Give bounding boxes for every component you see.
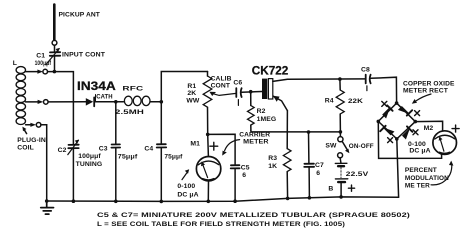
- node C3 rail: [114, 200, 118, 204]
- node C2 rail: [72, 199, 76, 203]
- node M1 rail: [207, 200, 211, 204]
- svg-text:6: 6: [316, 170, 320, 177]
- svg-text:75μμf: 75μμf: [164, 153, 183, 160]
- diode D1 IN34A: [86, 97, 94, 106]
- node junction C1/top-tap: [53, 70, 57, 74]
- capacitor C6: [236, 88, 241, 97]
- M1 bottom wire: [207, 181, 209, 201]
- svg-text:75μμf: 75μμf: [118, 153, 138, 160]
- node base/R2 junction: [249, 90, 253, 94]
- battery B 22.5V: [335, 163, 348, 197]
- inductor RFC 2.5MH: [124, 96, 150, 105]
- svg-text:C5: C5: [241, 165, 250, 172]
- capacitor C7: [304, 164, 314, 167]
- svg-text:PLUG-IN: PLUG-IN: [17, 137, 46, 144]
- svg-text:RFC: RFC: [122, 86, 143, 93]
- R3 label: [268, 155, 277, 170]
- wire middle tap: [26, 101, 39, 103]
- PLUG-IN COIL pointer arrow: [22, 127, 26, 134]
- M1 value pointer arrow: [182, 169, 189, 179]
- svg-text:C6: C6: [233, 79, 242, 86]
- svg-text:CONT: CONT: [211, 82, 231, 89]
- resistor R2 1MEG: [248, 92, 255, 131]
- battery + label: [348, 185, 354, 191]
- wire emitter line B (R2 bottom to SW junction): [251, 131, 341, 132]
- node C7 rail: [308, 196, 312, 200]
- C4 wires: [160, 148, 162, 201]
- wire middle tap to diode: [48, 101, 86, 103]
- bridge diode CR1 upper-left: [382, 105, 392, 118]
- svg-text:METER: METER: [243, 138, 268, 145]
- svg-text:DC μA: DC μA: [177, 191, 198, 198]
- C3 wires: [115, 102, 117, 144]
- node C3 tap: [114, 100, 118, 104]
- bridge diode CR4 lower-right: [402, 126, 412, 139]
- svg-text:22K: 22K: [348, 98, 363, 105]
- collector rail wire: [288, 78, 366, 80]
- svg-text:R4: R4: [325, 98, 334, 105]
- wire antenna to C1: [54, 45, 56, 51]
- CARRIER METER pointer arrow: [222, 140, 239, 156]
- node C4 rail: [160, 200, 164, 204]
- capacitor C1 (variable, INPUT CONT): [46, 48, 60, 65]
- svg-text:C7: C7: [315, 162, 324, 169]
- svg-text:COIL: COIL: [17, 145, 34, 152]
- node R4/SW junction: [339, 130, 343, 134]
- R2 label: [257, 108, 277, 123]
- svg-text:MODULATION: MODULATION: [405, 175, 449, 182]
- wire C1 to junction: [54, 57, 56, 72]
- node ground rail start: [45, 199, 49, 203]
- svg-text:B: B: [328, 186, 333, 193]
- wire bottom tap to ground riser: [41, 125, 47, 201]
- node R4 top junction: [338, 77, 342, 81]
- M1 value 0-100 DC uA: [177, 183, 198, 198]
- CR4 x mark: [413, 130, 418, 135]
- capacitor C4: [157, 144, 167, 147]
- connector jack top tap: [43, 69, 48, 74]
- M2 value 0-100 DC uA: [408, 141, 431, 155]
- capacitor C2 (variable, TUNING): [68, 140, 79, 155]
- bridge diode CR3 lower-left: [380, 126, 394, 136]
- CR3 x mark: [388, 138, 393, 143]
- CR2 x mark: [415, 111, 420, 116]
- svg-text:L = SEE COIL TABLE FOR FIELD S: L = SEE COIL TABLE FOR FIELD STRENGTH ME…: [97, 221, 345, 228]
- svg-text:M2: M2: [424, 125, 434, 132]
- svg-text:6: 6: [242, 172, 246, 179]
- resistor R4 22K: [336, 79, 344, 132]
- R1 label: [186, 83, 200, 105]
- svg-text:C2: C2: [58, 147, 67, 154]
- meter M2 percent modulation meter: [433, 131, 457, 155]
- node bridge bottom: [395, 137, 399, 141]
- C7 wires: [308, 132, 310, 163]
- CARRIER METER label: [239, 132, 270, 146]
- svg-text:ON-OFF: ON-OFF: [349, 143, 374, 150]
- svg-text:1MEG: 1MEG: [257, 116, 277, 123]
- node M1 top / line A junction: [206, 133, 210, 137]
- svg-text:22.5V: 22.5V: [346, 171, 369, 178]
- pickup antenna: [53, 5, 56, 41]
- svg-text:C5 & C7= MINIATURE 200V META: C5 & C7= MINIATURE 200V METALLIZED TUBUL…: [97, 212, 410, 219]
- switch SW: [338, 132, 350, 163]
- svg-text:IN34A: IN34A: [77, 80, 117, 93]
- node bridge left: [377, 120, 381, 124]
- node battery rail: [339, 195, 343, 199]
- svg-text:C8: C8: [361, 67, 370, 74]
- wire RFC to riser: [150, 101, 161, 103]
- svg-text:C1: C1: [36, 53, 45, 60]
- wire bottom tap: [26, 124, 32, 126]
- CR1 x mark: [382, 101, 387, 106]
- connector plug arrow middle tap: [38, 100, 44, 104]
- node R3 rail: [286, 197, 290, 201]
- PERCENT MODULATION METER label: [405, 167, 449, 190]
- svg-text:R1: R1: [187, 83, 196, 90]
- connector jack middle tap: [44, 100, 49, 105]
- ground rail wire: [47, 197, 399, 202]
- node C5 rail: [233, 199, 237, 203]
- svg-text:PICKUP ANT: PICKUP ANT: [59, 11, 101, 18]
- connector jack bottom tap: [36, 123, 41, 128]
- wire bridge bottom to rail: [397, 139, 399, 197]
- COPPER OXIDE METER RECT label: [403, 80, 455, 94]
- PERCENT MODULATION pointer arrow: [431, 161, 453, 185]
- svg-text:C3: C3: [99, 145, 108, 152]
- COPPER OXIDE pointer arrow: [412, 94, 431, 104]
- svg-text:ME TER: ME TER: [405, 183, 430, 190]
- svg-text:C4: C4: [144, 146, 153, 153]
- svg-text:DC μA: DC μA: [409, 148, 430, 155]
- ground symbol: [41, 201, 54, 214]
- svg-text:2.5MH: 2.5MH: [115, 109, 144, 116]
- CALIB CONT label: [211, 76, 232, 90]
- svg-text:WW: WW: [186, 98, 200, 105]
- wire riser x161 top rail to R1: [161, 72, 207, 144]
- capacitor C8: [366, 75, 371, 84]
- svg-text:CATH: CATH: [96, 93, 113, 100]
- wire C8 to bridge top: [371, 77, 397, 103]
- svg-text:100μμf: 100μμf: [78, 153, 101, 160]
- svg-text:R3: R3: [268, 155, 277, 162]
- M1 top wire: [207, 134, 210, 156]
- meter M1 carrier meter: [196, 157, 220, 181]
- wire bridge right to meter top: [415, 121, 442, 131]
- svg-text:COPPER OXIDE: COPPER OXIDE: [403, 80, 455, 87]
- PLUG-IN COIL label: [17, 137, 46, 152]
- M2 plus label: [452, 125, 459, 132]
- svg-text:TUNING: TUNING: [76, 161, 103, 168]
- svg-text:1K: 1K: [268, 163, 277, 170]
- connector plug arrow bottom tap: [30, 123, 36, 127]
- node C7 tap: [307, 130, 311, 134]
- svg-text:SW: SW: [325, 143, 337, 150]
- M1 plus label: [210, 142, 218, 150]
- node bridge right: [414, 120, 418, 124]
- wire top tap to C2 riser: [48, 72, 74, 144]
- capacitor C3: [111, 144, 120, 147]
- R1 wiper arrow: [209, 92, 236, 96]
- wire bridge left to meter loop: [378, 121, 441, 158]
- bridge rectifier diamond wires: [378, 103, 415, 139]
- capacitor C5: [231, 165, 240, 168]
- svg-text:PERCENT: PERCENT: [405, 167, 438, 174]
- C5 bottom wire: [234, 169, 236, 201]
- antenna terminal: [52, 40, 57, 45]
- wire C6 to base: [242, 91, 262, 94]
- wire C2 to rail: [72, 149, 74, 202]
- C6 tail tick: [237, 100, 239, 106]
- wire line A M1 node to C5: [208, 134, 235, 164]
- wire diode to RFC: [95, 101, 124, 103]
- potentiometer R1 2K WW: [203, 72, 212, 135]
- CATH tick: [95, 95, 97, 102]
- resistor R3 1K: [283, 111, 291, 199]
- svg-text:INPUT CONT: INPUT CONT: [62, 52, 106, 59]
- bridge diode CR2 upper-right: [398, 106, 412, 116]
- svg-text:METER RECT: METER RECT: [403, 88, 449, 95]
- inductor L plug-in coil: [16, 67, 25, 125]
- node RFC/riser junction: [160, 100, 164, 104]
- svg-text:CK722: CK722: [252, 64, 288, 77]
- svg-text:0-100: 0-100: [177, 183, 195, 190]
- connector plug arrow top tap: [26, 70, 43, 74]
- svg-text:M1: M1: [190, 141, 200, 148]
- svg-text:R2: R2: [257, 108, 266, 115]
- svg-text:100μμf: 100μμf: [35, 60, 52, 67]
- svg-text:L: L: [13, 60, 17, 67]
- transistor Q1 CK722: [262, 79, 288, 111]
- node bridge top: [395, 101, 399, 105]
- C8 tail tick: [366, 86, 368, 91]
- svg-text:2K: 2K: [187, 90, 196, 97]
